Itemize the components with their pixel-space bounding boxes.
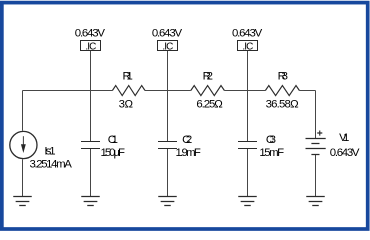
svg-text:3Ω: 3Ω	[119, 98, 134, 110]
svg-text:.IC: .IC	[242, 42, 253, 53]
svg-text:3.2514mA: 3.2514mA	[30, 159, 73, 171]
IC box node1	[81, 41, 101, 51]
wire Is1 top	[22, 91, 24, 131]
capacitor C2 plates	[158, 142, 177, 149]
svg-text:.IC: .IC	[85, 42, 96, 53]
resistor R1	[112, 86, 145, 96]
svg-text:150µF: 150µF	[101, 147, 126, 159]
svg-text:Is1: Is1	[44, 146, 55, 158]
wire node1 vertical	[90, 51, 92, 142]
battery V1 plates	[306, 139, 326, 155]
svg-text:C3: C3	[266, 134, 276, 146]
svg-text:36.58Ω: 36.58Ω	[266, 98, 299, 110]
wire R2-R3	[224, 90, 265, 92]
svg-text:C1: C1	[108, 134, 118, 146]
svg-text:R3: R3	[278, 70, 288, 82]
svg-text:.IC: .IC	[162, 42, 173, 53]
wire node1 lower	[90, 149, 92, 197]
wire node3 vertical	[247, 51, 249, 142]
wire R1-R2	[145, 90, 191, 92]
ground node3	[238, 197, 257, 206]
wire R3-V1	[299, 90, 315, 92]
wire node3 lower	[247, 149, 249, 197]
wire main left	[23, 90, 113, 92]
svg-text:R1: R1	[123, 70, 133, 82]
svg-text:0.643V: 0.643V	[330, 147, 360, 159]
ground node1	[81, 197, 100, 206]
wire Is1 bottom	[22, 159, 24, 196]
ground V1	[306, 197, 325, 206]
capacitor C3 plates	[238, 142, 257, 149]
svg-text:6.25Ω: 6.25Ω	[196, 98, 223, 110]
current source Is1 arrow	[21, 136, 26, 153]
svg-text:R2: R2	[203, 70, 213, 82]
svg-text:0.643V: 0.643V	[232, 28, 263, 40]
resistor R2	[191, 86, 225, 96]
wire V1 top	[315, 91, 317, 139]
resistor R3	[265, 86, 299, 96]
svg-text:V1: V1	[339, 132, 349, 144]
IC box node2	[158, 41, 178, 51]
ground Is1	[13, 197, 32, 206]
svg-text:0.643V: 0.643V	[152, 28, 183, 40]
svg-text:0.643V: 0.643V	[75, 28, 106, 40]
svg-text:1.9mF: 1.9mF	[176, 147, 201, 159]
IC box node3	[238, 41, 258, 51]
battery V1 plus sign	[317, 131, 322, 136]
svg-text:C2: C2	[182, 134, 192, 146]
wire node2 vertical	[167, 51, 169, 142]
ground node2	[158, 197, 177, 206]
wire node2 lower	[167, 149, 169, 197]
capacitor C1 plates	[81, 142, 100, 149]
wire V1 bottom	[315, 155, 317, 197]
current source Is1 circle	[10, 131, 37, 158]
svg-text:15mF: 15mF	[259, 147, 284, 159]
